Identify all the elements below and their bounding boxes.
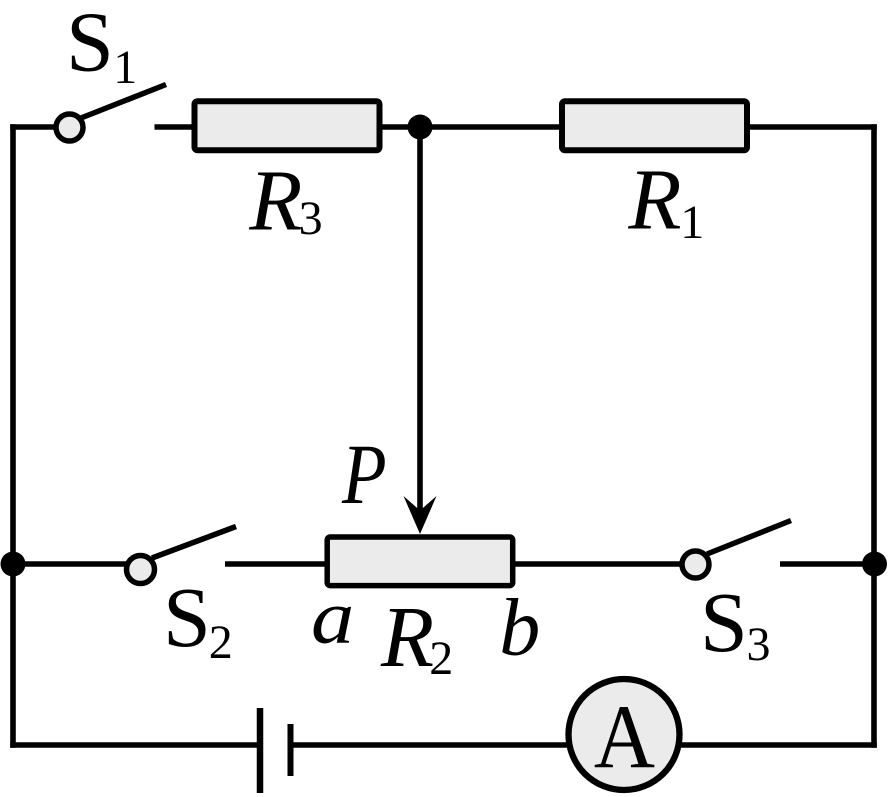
wire right vertical — [871, 124, 877, 748]
wire R1 to right corner — [750, 124, 877, 130]
label R1 — [627, 151, 704, 250]
wire R2 to S3 — [513, 561, 681, 567]
wire S3 to right node — [780, 561, 875, 567]
label P — [341, 427, 387, 522]
node junction top — [408, 115, 433, 140]
label S3 — [700, 574, 771, 671]
ammeter A — [569, 679, 680, 790]
label a — [311, 574, 354, 659]
wiper arrow P — [404, 127, 437, 534]
svg-text:b: b — [499, 581, 540, 672]
label b — [499, 581, 540, 672]
svg-text:S: S — [163, 569, 211, 665]
wire R3 to R1 — [382, 124, 562, 130]
svg-text:S: S — [700, 574, 748, 670]
label R2 — [380, 588, 453, 685]
svg-text:S: S — [66, 0, 114, 90]
wire top-left horizontal — [10, 124, 55, 130]
svg-text:2: 2 — [209, 616, 233, 669]
node right middle — [862, 552, 887, 577]
svg-text:R: R — [248, 152, 302, 249]
wire S2 to R2 — [225, 561, 330, 567]
label R3 — [248, 152, 322, 249]
label S2 — [163, 569, 233, 669]
wire bottom left — [10, 742, 257, 748]
svg-text:3: 3 — [299, 192, 323, 245]
wire left vertical — [10, 124, 16, 748]
node left middle — [1, 552, 26, 577]
wire battery to ammeter — [294, 742, 571, 748]
svg-text:a: a — [311, 574, 354, 659]
svg-text:R: R — [380, 588, 434, 685]
switch S2 — [127, 527, 237, 584]
svg-text:P: P — [341, 427, 387, 522]
svg-text:1: 1 — [680, 196, 704, 249]
resistor R1 — [562, 101, 747, 150]
resistor R3 — [195, 101, 380, 150]
switch S1 — [56, 85, 166, 142]
battery — [260, 708, 291, 793]
svg-text:2: 2 — [429, 632, 453, 685]
svg-text:1: 1 — [113, 41, 137, 94]
switch S3 — [682, 521, 791, 579]
svg-text:3: 3 — [747, 618, 771, 671]
wire S1 to R3 — [155, 124, 195, 130]
svg-text:R: R — [627, 151, 681, 248]
potentiometer R2 — [327, 537, 513, 586]
label S1 — [66, 0, 137, 94]
wire ammeter to right corner — [679, 742, 877, 748]
svg-text:A: A — [594, 688, 655, 788]
wire left node to S2 — [13, 561, 127, 567]
